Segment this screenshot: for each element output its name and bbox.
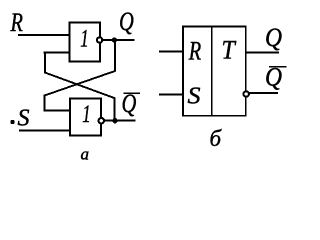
svg-text:Q: Q	[265, 23, 282, 52]
inversion bubble at block Qbar output	[244, 91, 249, 96]
svg-text:1: 1	[82, 101, 91, 128]
feedback wire from Q junction to G2 upper input	[45, 41, 116, 110]
svg-text:Q: Q	[119, 7, 134, 36]
junction node at Q	[112, 37, 117, 42]
inversion bubble at G1 output	[97, 37, 102, 42]
wire G2 output to Qbar	[104, 120, 136, 122]
wire feedback into G1 lower input	[44, 52, 71, 54]
NAND gate G1 body	[69, 22, 100, 61]
RS trigger block body	[183, 26, 246, 115]
svg-text:R: R	[10, 8, 23, 37]
wire R input to gate G1	[18, 34, 70, 36]
feedback wire from Qbar junction to G1 lower input	[45, 54, 115, 121]
svg-text:Q: Q	[265, 63, 282, 92]
svg-text:Q: Q	[122, 89, 137, 118]
wire G1 output to Q	[103, 39, 135, 41]
label Qbar overbar (left circuit)	[123, 92, 140, 94]
wire Q output of block	[247, 52, 279, 54]
wire S input to trigger block	[159, 93, 184, 95]
label Qbar overbar (block output)	[269, 66, 287, 68]
wire Qbar output of block	[249, 92, 278, 94]
svg-text:S: S	[18, 106, 30, 132]
svg-text:б: б	[210, 126, 223, 151]
svg-text:1: 1	[80, 25, 89, 52]
junction node at Qbar	[112, 118, 117, 123]
inversion bubble at G2 output	[99, 118, 104, 123]
svg-text:T: T	[222, 36, 237, 65]
svg-text:R: R	[188, 37, 201, 66]
svg-text:S: S	[188, 84, 201, 110]
NAND gate G2 body	[70, 98, 101, 135]
wire S input to gate G2	[19, 130, 70, 132]
svg-text:а: а	[81, 145, 90, 164]
trigger block divider	[211, 26, 213, 115]
wire R input to trigger block	[159, 51, 184, 53]
